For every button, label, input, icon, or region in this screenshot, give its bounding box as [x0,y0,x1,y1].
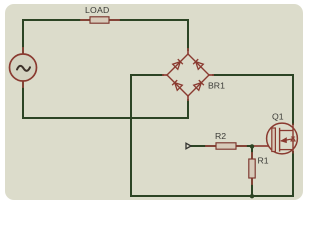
wire Q1 source down [292,152,294,196]
drain-source bus [292,131,294,150]
body tap with arrow [281,139,293,141]
wire bottom rail [131,195,293,197]
diode D4 (bottom to right) [194,80,204,90]
junction dot at R2/R1/gate node [250,144,254,148]
svg-text:Q1: Q1 [272,112,284,122]
resistor R2 body [216,143,236,149]
wire bridge left corner to inner loop [131,75,163,196]
wire bridge right corner to Q1 drain [213,75,293,124]
svg-text:BR1: BR1 [208,81,225,91]
diode D1 (left to top) [173,59,183,69]
wire bridge top drop [187,20,189,50]
MOSFET Q1 [267,123,298,154]
wire bottom of source to bridge bottom [23,100,188,118]
resistor R1 pins [251,153,253,184]
wire left vertical through source [22,20,24,118]
svg-text:LOAD: LOAD [85,5,109,15]
body diode mark [291,137,295,141]
AC source V1 [10,54,37,81]
junction dot at R1 bottom node [250,194,254,198]
svg-text:R2: R2 [215,131,226,141]
svg-text:R1: R1 [258,156,269,166]
bridge rectifier BR1 [167,54,209,96]
gate plate [272,128,276,152]
schematic canvas [5,4,303,200]
resistor LOAD pins [81,19,119,21]
source tap [280,149,293,151]
input terminal [186,143,191,149]
wire junction down through R1 [251,146,253,196]
resistor R1 body [249,159,255,178]
wire top loop: source top to bridge top [23,19,188,21]
Q1 gate pin [253,145,272,147]
wire input terminal to R2 and junction [191,145,252,147]
channel line [279,128,281,152]
drain tap [280,130,293,132]
source V1 pins [22,48,24,87]
drain/source pins inside circle [292,124,294,154]
diode D3 (bottom to left) [172,80,182,90]
bridge BR1 pin stubs [163,49,213,100]
diode D2 (right to top) [193,59,203,69]
resistor R2 pins [206,145,246,147]
resistor LOAD body [90,17,109,23]
